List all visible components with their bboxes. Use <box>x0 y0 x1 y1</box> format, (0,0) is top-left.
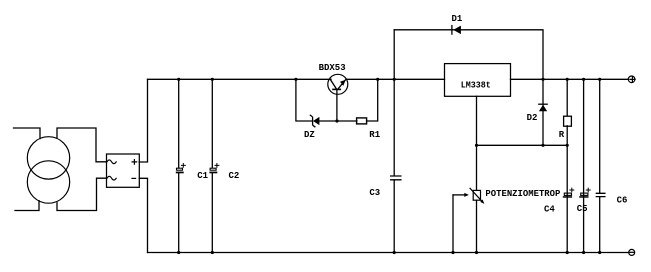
svg-text:C6: C6 <box>617 196 628 206</box>
svg-text:C4: C4 <box>544 205 555 215</box>
svg-text:LM338t: LM338t <box>461 80 491 90</box>
svg-text:DZ: DZ <box>304 130 315 140</box>
svg-text:R1: R1 <box>369 130 380 140</box>
svg-text:BDX53: BDX53 <box>319 63 346 73</box>
svg-text:C5: C5 <box>577 204 588 214</box>
svg-text:C1: C1 <box>197 171 208 181</box>
svg-text:R: R <box>559 130 565 140</box>
svg-text:POTENZIOMETROP: POTENZIOMETROP <box>485 189 561 199</box>
svg-text:C3: C3 <box>369 188 380 198</box>
svg-text:D2: D2 <box>527 113 538 123</box>
svg-text:C2: C2 <box>229 171 240 181</box>
svg-text:D1: D1 <box>452 14 463 24</box>
